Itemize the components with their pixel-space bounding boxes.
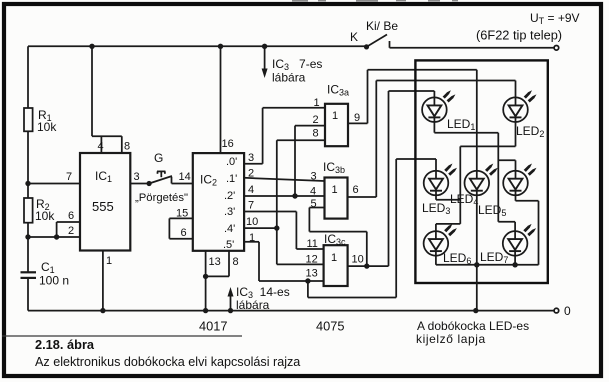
svg-text:15: 15 [176, 208, 188, 220]
svg-text:.3': .3' [224, 206, 235, 218]
svg-text:A dobókocka LED-es: A dobókocka LED-es [417, 319, 529, 333]
annotation arrow to IC3 pin14 [228, 285, 290, 313]
wire IC1 pin3 to button [130, 183, 149, 185]
svg-text:1: 1 [106, 255, 112, 267]
wire LED3 cathode join [436, 195, 460, 200]
wire IC1 pin2 [28, 236, 80, 238]
svg-text:10: 10 [246, 216, 258, 228]
svg-text:4017: 4017 [199, 319, 227, 334]
wire R1 to node7 [27, 131, 29, 198]
wire IC2 out2 pin4 to IC3b pin4 [244, 195, 324, 197]
svg-text:1: 1 [332, 110, 338, 122]
svg-text:IC3b: IC3b [323, 160, 345, 175]
junction [474, 262, 479, 267]
svg-text:.0': .0' [226, 156, 237, 168]
resistor R2 [24, 197, 55, 223]
stray scan rule [2, 335, 242, 337]
svg-text:6: 6 [181, 227, 187, 239]
wire IC2 out0 pin3 to IC3a pin1 [244, 108, 325, 164]
wire IC3a out9 to LED4 [348, 70, 477, 171]
annotation arrow to IC3 pin7 [262, 44, 323, 85]
svg-text:K: K [350, 30, 358, 44]
wire IC1 pin1 to ground [102, 251, 104, 311]
wire cathode common bus [436, 264, 539, 266]
svg-text:4075: 4075 [316, 319, 344, 334]
wire branch to IC3a pin2 [295, 126, 325, 196]
svg-text:G: G [154, 151, 163, 165]
svg-text:2: 2 [248, 168, 254, 180]
svg-text:4: 4 [248, 184, 254, 196]
junction rail [218, 44, 223, 49]
wire IC3b pin5 feedback [309, 208, 366, 267]
svg-text:Az elektronikus dobókocka elvi: Az elektronikus dobókocka elvi kapcsolás… [35, 355, 300, 369]
svg-text:.2': .2' [224, 190, 235, 202]
svg-text:10k: 10k [37, 120, 57, 134]
or-gate IC3a box [325, 83, 349, 147]
svg-text:.5': .5' [223, 239, 234, 251]
ground rail (0 V) [28, 310, 554, 312]
svg-text:10k: 10k [35, 209, 55, 223]
svg-text:1: 1 [249, 232, 255, 244]
svg-text:13: 13 [306, 268, 318, 280]
junction pin7 [25, 181, 30, 186]
junction [100, 308, 105, 313]
svg-text:7: 7 [248, 200, 254, 212]
svg-text:LED6: LED6 [443, 251, 471, 266]
wire LED4 cathode down [476, 195, 478, 264]
resistor R1 [24, 108, 57, 134]
LED2 [503, 90, 544, 139]
wire button to IC2 pin14 [172, 183, 193, 185]
svg-text:6: 6 [353, 184, 359, 196]
wire LED6 to bus [435, 256, 437, 265]
svg-text:1: 1 [332, 184, 338, 196]
svg-text:100 n: 100 n [39, 274, 69, 288]
junction [203, 274, 208, 279]
wire IC2 out3 pin7 to IC3c pin11 [244, 212, 324, 250]
svg-text:1: 1 [314, 97, 320, 109]
LED3 [422, 164, 457, 217]
node +V rail (top) [28, 45, 367, 47]
wire C1 to ground rail [27, 278, 29, 311]
counter IC2 4017 box [193, 153, 244, 251]
svg-text:LED3: LED3 [422, 201, 450, 216]
wire LED1 cathode to LED7 anode [434, 122, 515, 231]
svg-text:UT = +9V: UT = +9V [530, 11, 580, 26]
wire IC2 out4 pin10 to IC3c pin12 and IC3a pin8 [244, 140, 325, 264]
svg-text:„Pörgetés": „Pörgetés" [135, 192, 188, 204]
LED display board box [415, 60, 547, 283]
svg-text:IC1: IC1 [95, 169, 112, 184]
svg-text:8: 8 [124, 141, 130, 153]
wire tap to LED5 anode [498, 160, 515, 171]
LED5 [478, 164, 537, 219]
wire left column [27, 46, 29, 108]
junction [473, 308, 478, 313]
wire IC3b out6 to LED2 [348, 81, 516, 198]
svg-text:11: 11 [307, 238, 318, 250]
junction [292, 193, 297, 198]
LED1 [422, 90, 475, 132]
wire LED2 cathode to LED6 anode [436, 122, 516, 231]
svg-text:LED2: LED2 [516, 124, 544, 139]
or-gate IC3c box [324, 232, 348, 286]
wire IC1 pin6 [57, 222, 80, 237]
junction [274, 225, 279, 230]
junction pin2 [25, 234, 30, 239]
svg-text:IC3c: IC3c [324, 232, 346, 247]
junction feedback tap [364, 263, 369, 268]
svg-text:.1': .1' [226, 173, 237, 185]
svg-text:9: 9 [354, 112, 360, 124]
svg-text:8: 8 [313, 127, 319, 139]
svg-text:2: 2 [313, 114, 319, 126]
svg-text:8: 8 [233, 256, 239, 268]
wire IC1 pin7 [28, 183, 80, 185]
wire IC1 pins 4 and 8 to rail [92, 46, 122, 153]
or-gate IC3b box [323, 160, 348, 219]
LED7 [480, 224, 536, 265]
wire LED7 to bus [514, 256, 516, 265]
svg-text:7: 7 [66, 171, 72, 183]
op-amp U1 : timer IC1 555 box [80, 153, 130, 251]
svg-text:LED5: LED5 [478, 203, 506, 218]
svg-text:12: 12 [306, 254, 318, 266]
LED4 [450, 164, 498, 208]
svg-text:3: 3 [134, 171, 140, 183]
svg-text:LED7: LED7 [480, 250, 508, 265]
junction [203, 308, 208, 313]
wire IC3c out10 to LED1 [348, 91, 435, 266]
pushbutton G [147, 151, 173, 186]
svg-text:10: 10 [352, 254, 364, 266]
svg-text:2: 2 [68, 225, 74, 237]
wire IC2 pins13 8 to ground [206, 251, 229, 311]
wire common return to ground [476, 265, 478, 311]
svg-text:IC3a: IC3a [327, 83, 349, 98]
svg-text:4: 4 [98, 141, 104, 153]
svg-text:LED1: LED1 [447, 117, 475, 132]
wire LED5 cathode down [516, 196, 539, 265]
junction rail [89, 44, 94, 49]
wire IC2 out5 pin1 to IC3c pin13 [244, 242, 324, 281]
svg-text:0: 0 [564, 304, 571, 318]
svg-text:1: 1 [331, 252, 337, 264]
battery terminal 0 [554, 308, 559, 313]
junction [512, 262, 517, 267]
svg-text:16: 16 [222, 138, 234, 150]
svg-text:3: 3 [311, 171, 317, 183]
svg-text:555: 555 [92, 199, 114, 214]
battery terminal plus [554, 46, 559, 51]
svg-text:.4': .4' [224, 223, 235, 235]
svg-text:4: 4 [310, 186, 316, 198]
wire IC2 pin15 pin6 loop [169, 218, 192, 238]
svg-text:kijelző lapja: kijelző lapja [416, 332, 486, 346]
junction [305, 278, 310, 283]
junction [54, 234, 59, 239]
svg-text:Ki/ Be: Ki/ Be [366, 19, 398, 33]
switch K [350, 19, 554, 50]
svg-text:3: 3 [248, 152, 254, 164]
capacitor C1 [21, 260, 70, 288]
wire R2 to C1 [27, 223, 29, 272]
svg-text:(6F22 tip telep): (6F22 tip telep) [476, 28, 562, 43]
svg-text:2.18. ábra: 2.18. ábra [35, 337, 95, 352]
wire IC2 out1 pin2 to IC3b pin3 [244, 178, 324, 181]
svg-text:6: 6 [68, 210, 74, 222]
wire out5 branch to LED3 LED5 [308, 159, 436, 298]
svg-text:14: 14 [179, 171, 191, 183]
wire IC2 pin16 to rail [220, 46, 222, 153]
scan smudges top edge [292, 0, 458, 2]
LED6 [424, 224, 472, 266]
svg-text:13: 13 [209, 256, 221, 268]
svg-text:lábára: lábára [272, 71, 306, 85]
svg-text:IC2: IC2 [200, 173, 217, 188]
